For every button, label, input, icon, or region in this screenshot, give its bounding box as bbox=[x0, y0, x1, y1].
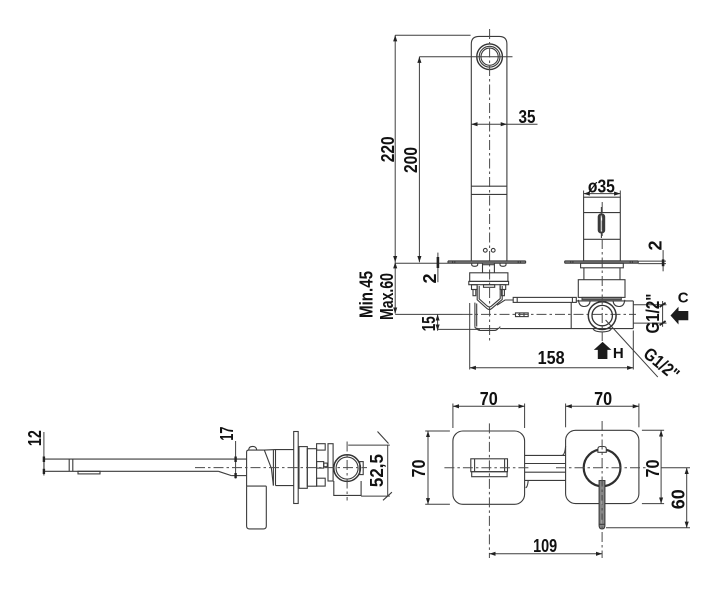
svg-text:Max.60: Max.60 bbox=[377, 273, 397, 320]
valve inlet circle bbox=[588, 302, 616, 330]
pipe top bar bbox=[513, 297, 576, 302]
valve adapter rings bbox=[264, 450, 293, 486]
bottom bolt bbox=[317, 478, 326, 486]
dimension 70 (right square height) bbox=[642, 430, 664, 503]
supply pipe top chamfer bbox=[497, 300, 513, 305]
dimension 12 bbox=[25, 430, 45, 475]
spout joint ring bbox=[69, 459, 73, 471]
concealed body flange box bbox=[470, 273, 508, 282]
left escutcheon square bbox=[453, 431, 525, 504]
dimension 15 bbox=[419, 314, 480, 331]
center tab bbox=[484, 285, 495, 288]
arrow C (cold) bbox=[671, 290, 689, 325]
valve stem (right unit) bbox=[584, 197, 621, 261]
dimension 60 (lever drop) bbox=[606, 468, 690, 528]
spout elbow cup bbox=[477, 286, 502, 310]
scalloped nut bbox=[578, 300, 624, 307]
supply circle (side) bbox=[334, 455, 361, 482]
front view centerlines bbox=[444, 421, 648, 558]
spout tube side bbox=[44, 459, 247, 476]
svg-text:70: 70 bbox=[594, 389, 612, 409]
dimension 70 (right square width) bbox=[566, 389, 639, 427]
lever pivot notch bbox=[598, 447, 606, 453]
right wide box bbox=[578, 280, 625, 298]
spindle bbox=[317, 462, 328, 469]
dimension 52,5 bbox=[348, 432, 392, 501]
flange under layer bbox=[469, 281, 509, 284]
svg-text:158: 158 bbox=[538, 348, 565, 368]
valve body block (side) bbox=[247, 450, 274, 486]
screw dots on tube bbox=[483, 248, 495, 252]
svg-text:109: 109 bbox=[533, 536, 557, 556]
tube centerline bbox=[489, 29, 491, 341]
inlet boss below body bbox=[593, 329, 611, 332]
dimension 220 bbox=[378, 35, 471, 262]
dimension 109 (center distance) bbox=[489, 536, 602, 556]
svg-text:70: 70 bbox=[643, 460, 663, 478]
cartridge housing bbox=[328, 444, 333, 481]
thin band bbox=[582, 297, 621, 299]
dimension 70 (left square height) bbox=[409, 431, 450, 504]
lower box (side) bbox=[334, 481, 361, 495]
handle circle bbox=[584, 449, 621, 486]
svg-text:220: 220 bbox=[378, 136, 398, 162]
pipe bottom line bbox=[500, 328, 633, 330]
connecting pipes bbox=[525, 446, 566, 488]
spout tube (top projection) bbox=[471, 36, 507, 261]
body cap dome bbox=[249, 446, 257, 450]
svg-text:G1/2": G1/2" bbox=[643, 294, 663, 334]
pipe union on centerline bbox=[516, 313, 529, 317]
svg-text:17: 17 bbox=[217, 427, 237, 441]
right escutcheon square bbox=[566, 430, 639, 503]
svg-text:52,5: 52,5 bbox=[367, 454, 387, 487]
dimension 2 (left plate thickness) bbox=[420, 253, 440, 284]
stem slot bbox=[598, 207, 606, 238]
dimension 158 bbox=[470, 303, 634, 370]
dimension 35 (tube width) bbox=[471, 107, 537, 127]
concealed box section B bbox=[307, 449, 316, 487]
dimension 2 (right plate) bbox=[638, 240, 666, 271]
svg-text:ø35: ø35 bbox=[588, 176, 615, 196]
svg-text:2: 2 bbox=[645, 240, 665, 250]
dimension G1/2 (inlet) bbox=[633, 294, 666, 334]
side view centerlines bbox=[195, 442, 367, 501]
svg-text:C: C bbox=[678, 290, 689, 307]
G1/2 leader (spout elbow) bbox=[606, 320, 684, 384]
lever handle (front) bbox=[599, 481, 605, 530]
dimension Min.45 Max.60 bbox=[357, 262, 397, 320]
svg-text:15: 15 bbox=[419, 316, 439, 331]
right flange under plate bbox=[581, 263, 624, 268]
right valve body bbox=[571, 301, 633, 329]
spout outlet bbox=[471, 459, 508, 477]
svg-text:H: H bbox=[613, 345, 624, 362]
dimension 200 bbox=[401, 57, 513, 263]
spout connector neck bbox=[483, 263, 495, 273]
right neck bbox=[584, 268, 620, 280]
aerator circle bbox=[477, 44, 503, 70]
svg-text:60: 60 bbox=[669, 489, 689, 509]
hanging bolt left bbox=[472, 285, 478, 296]
aerator slot under spout bbox=[78, 471, 100, 474]
dimension 70 (left square width) bbox=[453, 389, 525, 428]
left wall plate bbox=[448, 261, 526, 263]
side tab bbox=[360, 462, 364, 475]
svg-text:70: 70 bbox=[409, 460, 429, 478]
pipe centerline bbox=[395, 313, 636, 315]
handle lever (side) bbox=[247, 486, 267, 529]
top bolt bbox=[317, 444, 326, 450]
concealed box section A bbox=[299, 447, 307, 489]
dimension o35 bbox=[584, 176, 621, 197]
wall reference line (left) bbox=[395, 262, 448, 264]
svg-text:12: 12 bbox=[25, 430, 45, 446]
hanging bolt right bbox=[500, 285, 506, 296]
right unit centerline bbox=[601, 202, 603, 341]
arrow H (hot) bbox=[594, 342, 624, 362]
svg-text:2: 2 bbox=[420, 273, 440, 283]
svg-text:200: 200 bbox=[401, 147, 421, 173]
svg-text:35: 35 bbox=[519, 107, 536, 127]
locknut ears under plate bbox=[472, 263, 506, 266]
svg-text:Min.45: Min.45 bbox=[357, 271, 377, 318]
right wall plate bbox=[565, 261, 639, 263]
supply bracket bbox=[475, 303, 500, 331]
dimension 17 bbox=[217, 427, 237, 479]
svg-text:70: 70 bbox=[480, 389, 498, 409]
wall plate (side, edge-on) bbox=[294, 432, 299, 504]
